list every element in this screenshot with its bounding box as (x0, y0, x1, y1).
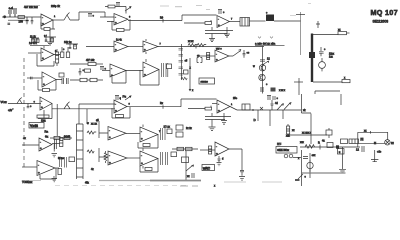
svg-text:+: + (109, 161, 111, 165)
op-amp U7C (108, 151, 127, 165)
pot arrow out U4 (229, 50, 241, 57)
capacitor C50 (27, 104, 30, 108)
wire U5C out diagonal (230, 107, 237, 111)
component on rail (326, 130, 332, 135)
bottom center tiny marks (180, 185, 198, 187)
capacitor C40 (243, 50, 246, 58)
wire to right edge (274, 20, 301, 22)
wire row C low cluster (50, 137, 72, 139)
svg-text:x: x (214, 186, 216, 188)
svg-text:10k 1u: 10k 1u (64, 41, 72, 44)
wire drop ladder right (86, 109, 88, 124)
ground G6 (221, 113, 227, 124)
svg-text:1k 1k: 1k 1k (30, 36, 37, 39)
pot wiper P4 (64, 102, 70, 109)
svg-text:a mio del xx alta: a mio del xx alta (255, 41, 276, 45)
op-amp U6B (37, 161, 55, 176)
dark box pair (271, 88, 276, 92)
svg-text:x: x (190, 67, 192, 70)
op-amp U3C (110, 64, 126, 77)
svg-text:xx: xx (187, 175, 190, 178)
boxed note B (199, 78, 215, 84)
wire U6A out (52, 143, 60, 145)
small rect on second bus (184, 70, 189, 74)
svg-text:+: + (111, 73, 113, 77)
op-amp U5A (40, 97, 52, 110)
wire U4 input (200, 55, 215, 57)
bus C step up (181, 99, 217, 107)
diagonal mark bottom-left (298, 174, 303, 179)
svg-text:+: + (115, 109, 117, 113)
capacitor C3 (31, 17, 34, 24)
svg-text:+: + (324, 48, 326, 51)
wire main bus row A (128, 20, 182, 22)
svg-text:+ +: + + (9, 7, 13, 10)
svg-text:4n7 22k 2n2: 4n7 22k 2n2 (24, 6, 38, 9)
dark bottom-left mark (295, 179, 300, 181)
svg-text:+: + (218, 109, 220, 113)
wire between U3A U3B (128, 46, 143, 48)
svg-text:Rx: Rx (160, 102, 164, 105)
ladder rung c3 (179, 61, 184, 63)
gray smudge line D2 (99, 180, 150, 182)
op-amp U2B (42, 72, 56, 87)
svg-text:+: + (266, 12, 268, 15)
resistor R2 (44, 28, 50, 31)
svg-text:xx xxx x: xx xxx x (302, 132, 312, 135)
RC cluster bottom-left (30, 36, 39, 43)
crossbar ground x374 (371, 160, 378, 162)
transistor Q2 (259, 74, 265, 80)
capacitor C51 over U5B (115, 96, 119, 101)
svg-text:-: - (115, 43, 116, 47)
svg-text:7: 7 (231, 19, 233, 21)
op-amp U2A (41, 48, 54, 61)
wire right vertical drop (300, 12, 302, 55)
svg-text:-: - (42, 50, 43, 54)
capacitor C61 round (319, 62, 326, 69)
svg-text:+: + (38, 171, 40, 175)
ground G3 (224, 27, 230, 37)
ground G9 (339, 169, 346, 172)
ladder bus rail (181, 44, 183, 80)
svg-text:-: - (218, 102, 219, 106)
box component u (338, 149, 345, 154)
vertical drop x374 (374, 150, 376, 162)
svg-text:-: - (40, 140, 41, 144)
drop to PSU x311 (310, 114, 312, 145)
diode D1 top of bus (316, 21, 320, 28)
scan noise dash top right (290, 4, 311, 16)
svg-text:Ra: Ra (45, 130, 49, 134)
capacitor C73 pair (161, 152, 168, 165)
wire stubs U5C (212, 103, 217, 105)
capacitor C54 marks (271, 100, 274, 110)
inductor L1 box (240, 18, 250, 27)
svg-text:+: + (93, 15, 95, 18)
feedback loop U6B (40, 168, 56, 179)
svg-text:c: c (305, 176, 307, 179)
wire to rail (70, 12, 105, 20)
resistor R26 (90, 78, 97, 81)
svg-text:+x: +x (23, 137, 26, 140)
resistor R70 on top rail (338, 32, 347, 35)
svg-text:xk: xk (303, 109, 306, 112)
wire row C input (8, 103, 41, 105)
capacitor C5 over U1B (116, 3, 120, 7)
svg-text:25+: 25+ (233, 97, 238, 100)
left PSU vertical x310 (309, 153, 311, 178)
resistor R71 on bottom rail (342, 80, 350, 83)
wire U5A out (52, 108, 115, 110)
svg-text:R: R (318, 142, 320, 145)
svg-text:cn: cn (197, 55, 200, 58)
ground G10 (239, 177, 245, 181)
feedback top loop U1B (105, 7, 126, 14)
svg-text:+: + (41, 105, 43, 109)
wire right vertical C4 (302, 94, 312, 113)
svg-text:+: + (43, 82, 45, 86)
svg-text:x: x (344, 77, 346, 80)
component on bus (182, 157, 189, 163)
resistor R25 (80, 78, 87, 81)
tick crossbar 2 (294, 81, 303, 83)
svg-text:TO8Kxxx: TO8Kxxx (22, 181, 33, 184)
op-amp U7A (108, 127, 126, 141)
svg-text:DC07: DC07 (64, 137, 71, 139)
pot wiper P1 (64, 13, 70, 21)
trimmer P2 (125, 7, 131, 12)
wire drop ladder left (78, 109, 80, 124)
svg-text:+: + (63, 48, 65, 51)
junction tick row A (162, 19, 164, 23)
svg-text:w: w (87, 122, 89, 125)
arrow down ladder (189, 85, 191, 91)
resistor R65 zigzag vertical (104, 151, 107, 163)
wire stub right (293, 157, 301, 159)
boxed label Vout (29, 123, 44, 129)
wire upper to U5B (79, 104, 115, 109)
drop stub 2 (282, 110, 284, 119)
resistor R32 zigzag (197, 44, 206, 47)
box component top B (349, 139, 359, 144)
RC pair after U2A (54, 47, 70, 58)
PSU bottom rail (313, 81, 342, 83)
svg-text:-: - (38, 163, 39, 167)
svg-text:xx: xx (338, 29, 341, 32)
left PSU vertical x300 (301, 150, 303, 186)
wire U3C input (102, 70, 110, 72)
capacitor C70 (55, 139, 57, 149)
lower return wire (8, 19, 29, 21)
feedback loop U3D (140, 70, 159, 86)
svg-text:2x 2x: 2x 2x (186, 127, 193, 130)
left return wire lower (298, 78, 300, 95)
op-amp U1B (114, 14, 128, 26)
svg-text:1: 1 (54, 16, 56, 18)
svg-text:+: + (216, 152, 218, 156)
capacitor C91 (303, 157, 308, 159)
pot arrow on wire (277, 104, 284, 111)
dashed panel divider (23, 58, 25, 168)
ground G7 (52, 176, 58, 182)
resistor R51 (116, 115, 124, 118)
resistor R64 zigzag (87, 150, 94, 153)
feedback box U7B (138, 135, 158, 149)
capacitor C81 (240, 170, 244, 175)
resistor R73 (167, 129, 172, 134)
svg-text:+2c: +2c (377, 151, 382, 154)
resistor R20 vertical (56, 52, 59, 63)
resistor R72 (143, 144, 150, 147)
resistor R30 (167, 64, 172, 69)
svg-text:w: w (253, 65, 255, 68)
pot wiper P3 (17, 98, 22, 104)
small rect stack upper right (176, 132, 183, 137)
svg-text:-: - (111, 67, 112, 71)
svg-text:+: + (141, 161, 143, 165)
feedback U7D (140, 159, 158, 173)
ladder rung c1 (179, 49, 184, 51)
resistor R52 on stub (205, 107, 212, 110)
svg-text:+: + (34, 101, 36, 104)
capacitor C7 under U1C (205, 27, 233, 37)
svg-text:6: 6 (129, 104, 131, 106)
equals mark bottom-left (8, 23, 11, 24)
svg-text:1Mx: 1Mx (41, 120, 46, 123)
svg-text:4k7 10k: 4k7 10k (86, 59, 95, 62)
resistor R57 (64, 136, 70, 139)
capacitor C60 (319, 47, 324, 56)
resistor R75 (171, 152, 177, 157)
wire mid row B (70, 63, 88, 65)
indicator circles (284, 154, 288, 158)
ground G2 (209, 37, 215, 42)
svg-text:+5: +5 (185, 60, 188, 63)
svg-text:x xx x: x xx x (279, 89, 286, 92)
pot arrow chain (263, 61, 269, 65)
svg-text:+: + (42, 22, 44, 26)
svg-text:c r: c r (44, 35, 47, 38)
svg-text:wRC: wRC (202, 166, 211, 170)
svg-text:-: - (216, 52, 217, 56)
op-amp U8 (215, 142, 229, 156)
feedback loop U1A (41, 20, 55, 29)
capacitor C23 pair (62, 78, 68, 84)
feedback loop U1B (112, 19, 130, 30)
arrow near +2 (10, 108, 14, 112)
resistor R55 vertical (287, 126, 290, 134)
resistor R63 zigzag (87, 131, 96, 134)
svg-text:ww +: ww + (216, 48, 222, 51)
drop resistor D label (257, 110, 259, 121)
psu lower line (315, 91, 340, 94)
bars under chain (261, 87, 263, 92)
resistor R90 zigzag (305, 145, 315, 149)
wire U7A-U7B (126, 133, 140, 135)
v marks above note (258, 37, 273, 39)
svg-text:12: 12 (267, 58, 270, 61)
resistor R56 (54, 136, 60, 139)
ladder stack left rail (76, 124, 78, 179)
top cluster RC (64, 41, 78, 49)
ladder stack rungs (77, 124, 84, 177)
svg-text:-: - (42, 16, 43, 20)
polarized capacitor C8 (266, 15, 274, 22)
wire U3A input (86, 46, 114, 48)
resistor R62 vertical (58, 169, 61, 175)
svg-text:+: + (105, 68, 107, 71)
trimmer P5 (125, 96, 131, 100)
vertical bus D2 (185, 151, 187, 180)
svg-text:VCxx: VCxx (1, 100, 8, 104)
wire input bus (4, 16, 41, 18)
capacitor C71 pair (60, 157, 67, 168)
wire U3C to U3D (126, 70, 143, 72)
svg-text:q: q (120, 97, 122, 100)
svg-text:-: - (218, 17, 219, 21)
ladder rung c4 (179, 67, 184, 69)
svg-text:+e: +e (247, 52, 250, 55)
feedback loop U3C (112, 71, 126, 84)
capacitor C80 (218, 156, 221, 160)
svg-text:xx xx: xx xx (91, 123, 98, 126)
drop 2 (269, 110, 271, 126)
svg-text:4x: 4x (91, 168, 94, 171)
feedback loop U2A (37, 54, 54, 66)
capacitor C31 pair (162, 63, 168, 77)
faint scan line D1 (22, 180, 41, 182)
resistor R1 (18, 16, 25, 19)
faint scan line D3b (262, 181, 282, 183)
input bus lower D2 (99, 148, 108, 162)
capacitor C1 cluster (9, 7, 17, 18)
input bus upper D2 (99, 121, 108, 138)
pot arrow 2 (284, 103, 291, 110)
svg-text:-: - (115, 15, 116, 19)
svg-text:1x 4x: 1x 4x (116, 39, 123, 42)
wire U2A input (28, 52, 41, 54)
PSU lower rail (302, 172, 346, 174)
op-amp U1A (41, 14, 53, 26)
svg-text:4x: 4x (322, 140, 325, 143)
wire U8 input (200, 149, 215, 151)
wire row D2 input (22, 166, 37, 168)
zigzag on second bus (181, 77, 187, 80)
svg-text:22: 22 (391, 142, 394, 145)
svg-text:+: + (223, 11, 225, 14)
svg-text:x: x (192, 89, 194, 92)
svg-text:+: + (141, 137, 143, 141)
resistor R31 zigzag (188, 44, 197, 47)
resistor R60 vertical (60, 138, 63, 147)
vertical drop right of U5A (56, 104, 58, 136)
box component top A (341, 139, 348, 144)
resistor R24 (59, 73, 64, 77)
svg-text:suono: suono (201, 81, 209, 84)
svg-text:6: 6 (129, 17, 131, 19)
op-amp U1C (217, 16, 230, 28)
bracket marks (197, 58, 202, 63)
gray smudge line D2 dark (150, 180, 201, 182)
ground G8 (217, 160, 222, 166)
wire U2B out (56, 79, 80, 82)
resistor R68 (177, 147, 184, 150)
RC cluster under U1A (44, 35, 56, 43)
svg-text:220p 1k: 220p 1k (51, 5, 61, 8)
feedback loop U5B (112, 107, 130, 118)
junction tick PSU (319, 145, 321, 150)
svg-text:1: 1 (231, 104, 233, 106)
component C90 (327, 143, 333, 148)
faint scan line D3a (224, 181, 246, 183)
circled terminal (385, 140, 390, 145)
svg-text:-: - (144, 43, 145, 47)
C4 bottom rail right (358, 132, 388, 147)
ground G11 (52, 154, 58, 157)
svg-text:4d: 4d (275, 102, 278, 105)
feedback loop U5A (38, 104, 52, 119)
svg-text:+: + (144, 73, 146, 77)
svg-text:Fu: Fu (123, 95, 127, 99)
svg-text:-: - (109, 154, 110, 158)
svg-text:SEE NOx: SEE NOx (277, 148, 289, 152)
op-amp U6A (39, 138, 52, 151)
stub to U5C pin (188, 106, 211, 109)
svg-text:+: + (109, 135, 111, 139)
junction tick row C (162, 105, 164, 109)
vertical drop x342 (342, 147, 344, 169)
resistor R74 (145, 168, 152, 171)
svg-text:Vx48: Vx48 (30, 124, 38, 128)
svg-text:M: M (374, 142, 376, 145)
svg-text:-: - (43, 75, 44, 79)
svg-text:-: - (109, 129, 110, 133)
svg-text:-: - (216, 145, 217, 149)
svg-text:MQ 107: MQ 107 (371, 8, 398, 17)
diagonal mark (186, 165, 194, 171)
capacitor C2 (26, 17, 29, 24)
wire U6B out (55, 167, 59, 169)
svg-text:-: - (41, 99, 42, 103)
upper wire to terminal (359, 142, 386, 144)
svg-text:xx: xx (292, 129, 295, 132)
resistor R8 top loop (108, 5, 115, 8)
bus step up (182, 15, 217, 21)
PSU wire bottom right (300, 146, 360, 148)
svg-text:+: + (266, 83, 268, 86)
wire row D1 input (22, 144, 39, 146)
drop under U6A (53, 144, 55, 152)
ladder rung c2 (179, 55, 184, 57)
svg-text:Gz: Gz (45, 136, 49, 139)
capacitor C4 (88, 14, 92, 18)
svg-text:-: - (115, 102, 116, 106)
wire stub U1B minus (100, 12, 114, 22)
capacitor C22 (31, 77, 33, 80)
capacitor C21 (79, 68, 82, 75)
resistor R3 (117, 29, 125, 32)
capacitor C6 over U1C (218, 10, 222, 15)
svg-text:+xx: +xx (312, 154, 317, 157)
resistor R61 (69, 157, 75, 162)
faint dotted bottom line (55, 184, 190, 186)
svg-text:1xx: 1xx (329, 56, 334, 59)
resistor R80 vertical (209, 146, 212, 154)
wire right bus D2 (172, 148, 198, 150)
svg-text:-: - (144, 65, 145, 69)
resistor R40 vertical (207, 53, 210, 60)
